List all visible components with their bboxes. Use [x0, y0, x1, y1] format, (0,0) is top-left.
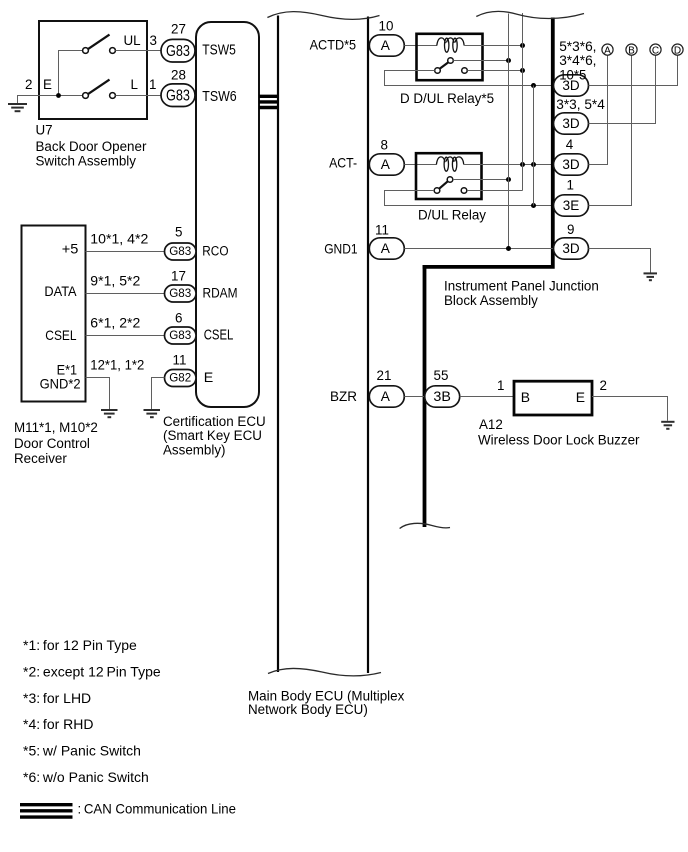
svg-text:3*3, 5*4: 3*3, 5*4	[556, 97, 605, 112]
ground G4 (3D pin 9)	[644, 273, 658, 280]
wire A8 to relay 2 coil	[404, 164, 436, 166]
svg-text:Door Control: Door Control	[14, 436, 90, 451]
wire relay 1 right contact	[467, 68, 525, 73]
connector A pin 21 (BZR)	[369, 368, 404, 407]
svg-text:G83: G83	[169, 328, 191, 342]
connector G83 pin 27	[161, 22, 195, 63]
wire relay 1 left contact to 3D	[385, 71, 554, 89]
bus line x522.5	[522, 13, 524, 191]
svg-text:28: 28	[171, 68, 186, 83]
svg-text:Assembly): Assembly)	[163, 443, 226, 458]
wire relay 1 top contact	[453, 58, 511, 63]
label buzzer	[478, 417, 640, 447]
svg-text:ACT-: ACT-	[329, 154, 357, 170]
svg-text:5*3*6,: 5*3*6,	[559, 39, 596, 54]
wire +5 to RCO	[86, 232, 165, 252]
svg-text:RDAM: RDAM	[203, 285, 238, 301]
svg-text:E: E	[576, 389, 585, 405]
svg-text:Block Assembly: Block Assembly	[444, 293, 538, 308]
svg-text:6*1, 2*2: 6*1, 2*2	[90, 316, 140, 331]
svg-text:*6: w/o Panic Switch: *6: w/o Panic Switch	[23, 769, 149, 785]
svg-text:*3: for LHD: *3: for LHD	[23, 690, 91, 706]
connector 3D pin 4	[554, 137, 589, 175]
wire 3D(10*5) to circle D	[589, 55, 678, 85]
wire E to ground	[18, 96, 83, 104]
relay 1 box (D D/UL Relay*5)	[417, 34, 483, 80]
svg-text:11: 11	[173, 353, 187, 368]
wire E*1 GND*2 to ground	[86, 358, 145, 409]
circle A	[602, 44, 613, 56]
ground G5 (buzzer)	[661, 422, 674, 429]
svg-text:G83: G83	[169, 244, 191, 258]
svg-text:U7: U7	[36, 122, 53, 137]
svg-text:DATA: DATA	[44, 283, 77, 299]
svg-text:A: A	[381, 157, 391, 172]
svg-text:E: E	[43, 77, 52, 92]
svg-text:ACTD*5: ACTD*5	[310, 36, 357, 52]
svg-text:A: A	[604, 45, 611, 56]
connector G83 pin 6	[165, 310, 197, 344]
svg-text:BZR: BZR	[330, 388, 357, 404]
svg-text:E: E	[204, 370, 213, 386]
connector A pin 8 (ACT-)	[369, 137, 404, 175]
CAN communication bars between ECUs	[259, 96, 277, 107]
svg-text:UL: UL	[124, 33, 141, 48]
svg-text:+5: +5	[62, 241, 79, 257]
note *1	[23, 637, 137, 653]
svg-text:B: B	[521, 389, 530, 405]
svg-text:1: 1	[567, 177, 574, 192]
svg-text:10*1, 4*2: 10*1, 4*2	[90, 232, 148, 247]
pin labels of U7	[25, 33, 157, 92]
svg-text:9: 9	[567, 222, 574, 237]
svg-text:D D/UL Relay*5: D D/UL Relay*5	[400, 91, 494, 106]
switch L (lower)	[83, 80, 116, 99]
ground G3 (certification ECU E)	[144, 410, 161, 417]
svg-text:TSW6: TSW6	[202, 89, 236, 105]
junction block torn bottom wave	[400, 523, 450, 528]
svg-text:A: A	[381, 389, 391, 404]
svg-text:3: 3	[150, 33, 157, 48]
label instrument panel junction block	[444, 279, 599, 308]
connector 3E pin 1	[554, 177, 589, 216]
back door opener switch assembly box U7	[39, 21, 147, 119]
svg-text:Switch Assembly: Switch Assembly	[36, 154, 137, 169]
bus line x533.5	[533, 86, 535, 206]
main body ECU internal pin labels	[310, 36, 358, 404]
relay 2 box (D/UL Relay)	[416, 153, 482, 199]
main body ECU right edge	[367, 17, 369, 674]
svg-text:(Smart Key ECU: (Smart Key ECU	[163, 428, 262, 443]
svg-text:8: 8	[381, 137, 388, 152]
connector 3B pin 55	[425, 368, 460, 407]
svg-text:Back Door Opener: Back Door Opener	[36, 139, 147, 154]
svg-text:GND*2: GND*2	[40, 375, 81, 391]
svg-text:G83: G83	[166, 43, 190, 60]
bus line x508	[508, 14, 510, 249]
svg-text:3B: 3B	[433, 389, 451, 404]
svg-text:3D: 3D	[562, 157, 579, 172]
wire buzzer to ground	[592, 378, 668, 421]
svg-text:11: 11	[375, 222, 389, 237]
svg-text:*1: for 12 Pin Type: *1: for 12 Pin Type	[23, 637, 137, 653]
wire L contact to connector	[115, 95, 161, 97]
svg-text:10: 10	[379, 19, 394, 34]
svg-text:17: 17	[171, 268, 186, 283]
svg-text:L: L	[131, 77, 138, 92]
wire A10 to relay coil	[404, 45, 437, 47]
svg-text:3D: 3D	[562, 116, 579, 131]
svg-text:27: 27	[171, 22, 186, 37]
connector 3D (3*3, 5*4)	[554, 97, 606, 134]
label relay 2	[418, 207, 486, 222]
connector G83 pin 5	[165, 224, 197, 260]
connector G83 pin 17	[165, 268, 197, 302]
wire relay 2 right contact	[467, 190, 523, 192]
svg-text:2: 2	[25, 77, 32, 92]
note *6	[23, 769, 149, 785]
svg-text:A12: A12	[479, 417, 503, 432]
svg-text:1: 1	[149, 77, 156, 92]
connector 3D (pin 10*5)	[554, 75, 589, 96]
note *3	[23, 690, 91, 706]
svg-text:G83: G83	[169, 286, 191, 300]
svg-text:2: 2	[600, 378, 607, 393]
svg-text:GND1: GND1	[324, 240, 358, 256]
wire CSEL to CSEL	[86, 316, 165, 336]
svg-text:1: 1	[497, 378, 504, 393]
instrument panel junction block thick line	[423, 18, 555, 528]
svg-text:5: 5	[175, 224, 182, 239]
svg-text:4: 4	[566, 137, 574, 152]
wire 3D(4) to circle A	[589, 55, 608, 164]
wire relay 1 coil output	[464, 43, 525, 48]
circle C	[650, 44, 661, 56]
CAN communication line legend	[20, 801, 236, 818]
svg-text:CSEL: CSEL	[204, 328, 234, 344]
svg-text:D: D	[674, 45, 681, 56]
svg-text:TSW5: TSW5	[202, 43, 236, 59]
connector 3D pin 9	[554, 222, 589, 259]
label relay 1	[400, 91, 494, 106]
svg-text:A: A	[381, 38, 391, 53]
svg-text:Certification ECU: Certification ECU	[163, 414, 266, 429]
connector G82 pin 11	[165, 353, 197, 387]
wire GND1 A11 to 3D pin 9	[404, 246, 553, 251]
svg-text:B: B	[628, 45, 635, 56]
label certification ECU	[163, 414, 266, 458]
door control receiver box	[22, 226, 86, 402]
svg-text:55: 55	[434, 368, 449, 383]
junction block torn top wave	[476, 11, 584, 18]
svg-text:Instrument Panel Junction: Instrument Panel Junction	[444, 279, 599, 294]
svg-text:Network Body ECU): Network Body ECU)	[248, 702, 368, 717]
connector A pin 11 (GND1)	[369, 222, 404, 259]
wire 3B to buzzer	[460, 378, 514, 397]
note *4	[23, 716, 94, 732]
wire relay 2 top contact	[453, 177, 511, 182]
svg-text:Receiver: Receiver	[14, 451, 67, 466]
label U7 Back Door Opener Switch Assembly	[36, 122, 147, 168]
svg-text:6: 6	[175, 310, 182, 325]
svg-text:M11*1, M10*2: M11*1, M10*2	[14, 420, 98, 435]
wire relay 2 coil output to 3D pin 4	[464, 162, 554, 167]
svg-text:9*1, 5*2: 9*1, 5*2	[90, 274, 140, 289]
svg-text:Main Body ECU (Multiplex: Main Body ECU (Multiplex	[248, 688, 405, 703]
certification ECU (smart key ECU assembly) outline	[196, 22, 259, 407]
svg-text:G83: G83	[166, 87, 190, 104]
svg-text:: CAN Communication Line: : CAN Communication Line	[78, 801, 237, 817]
svg-text:C: C	[652, 45, 659, 56]
wire 3D(9) to ground	[589, 249, 651, 273]
svg-text:*2: except 12 Pin Type: *2: except 12 Pin Type	[23, 663, 161, 679]
svg-text:3D: 3D	[562, 241, 579, 256]
relay 1 coil	[437, 38, 464, 52]
circle D	[672, 44, 683, 56]
note *2	[23, 663, 161, 679]
circle B	[626, 44, 637, 56]
svg-text:CSEL: CSEL	[45, 327, 77, 343]
main body ECU left edge	[277, 16, 279, 673]
svg-text:*5: w/ Panic Switch: *5: w/ Panic Switch	[23, 743, 141, 759]
svg-text:12*1, 1*2: 12*1, 1*2	[90, 358, 144, 373]
wire UL contact to connector	[115, 50, 161, 52]
ECU pin name labels	[202, 43, 237, 386]
ground G2 (door control receiver)	[101, 410, 118, 417]
wire link between switch poles	[56, 51, 82, 98]
wire 3E(1) to circle B	[589, 55, 632, 205]
wire 3D(3*3) to circle C	[589, 55, 656, 123]
switch UL (upper)	[83, 35, 116, 54]
relay 1 switch	[435, 58, 468, 74]
door control receiver pin labels	[40, 241, 81, 392]
svg-text:*4: for RHD: *4: for RHD	[23, 716, 94, 732]
wire A21 to 3B	[404, 396, 424, 398]
svg-text:3*4*6,: 3*4*6,	[559, 53, 596, 68]
svg-text:3E: 3E	[563, 198, 580, 213]
wire relay 2 left contact to 3E	[385, 191, 554, 209]
relay 2 switch	[434, 177, 467, 194]
connector G83 pin 28	[161, 68, 195, 107]
wire G82 to ground	[152, 378, 165, 410]
wire DATA to RDAM	[86, 274, 165, 294]
svg-text:21: 21	[377, 368, 392, 383]
buzzer box A12	[514, 381, 592, 415]
svg-text:D/UL Relay: D/UL Relay	[418, 207, 486, 222]
harness label 5*3*6, 3*4*6, 10*5	[559, 39, 596, 83]
relay 2 coil	[436, 157, 463, 171]
ground G1 (U7 E)	[8, 104, 27, 111]
label main body ECU	[248, 688, 405, 717]
note *5	[23, 743, 141, 759]
label door control receiver	[14, 420, 98, 466]
svg-text:G82: G82	[169, 370, 191, 384]
svg-text:Wireless Door Lock Buzzer: Wireless Door Lock Buzzer	[478, 432, 640, 447]
svg-text:RCO: RCO	[202, 243, 228, 259]
main body ECU torn bottom wave	[268, 668, 381, 675]
main body ECU torn top wave	[267, 12, 379, 20]
connector A pin 10 (ACTD)	[369, 19, 404, 57]
svg-text:10*5: 10*5	[559, 68, 587, 83]
svg-text:A: A	[381, 241, 391, 256]
